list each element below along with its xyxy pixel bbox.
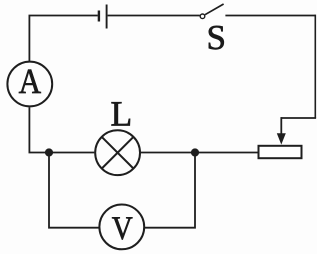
wire bbox=[281, 117, 316, 119]
ammeter A circle bbox=[7, 62, 52, 107]
svg-text:S: S bbox=[206, 18, 225, 57]
svg-text:L: L bbox=[111, 94, 133, 134]
rheostat R wiper arrowhead bbox=[277, 133, 286, 144]
wire bbox=[29, 16, 97, 62]
wire bbox=[108, 15, 200, 17]
switch S contact circle bbox=[200, 14, 205, 19]
lamp L circle bbox=[95, 130, 140, 175]
wire bbox=[314, 15, 316, 118]
wire bbox=[29, 107, 94, 152]
lamp L cross bbox=[102, 137, 134, 169]
wire bbox=[225, 15, 315, 17]
node junction dot right bbox=[191, 148, 199, 156]
svg-text:V: V bbox=[112, 211, 133, 247]
svg-text:A: A bbox=[19, 61, 42, 101]
wire rheostat wiper stem bbox=[280, 117, 282, 134]
battery negative plate bbox=[98, 11, 100, 22]
wire voltmeter branch left bbox=[49, 153, 99, 228]
voltmeter V circle bbox=[99, 205, 144, 250]
switch S lever bbox=[205, 4, 224, 15]
rheostat R body bbox=[259, 146, 302, 158]
battery positive plate bbox=[106, 5, 108, 29]
node junction dot left bbox=[45, 148, 53, 156]
wire voltmeter branch right bbox=[145, 153, 195, 228]
wire bbox=[141, 152, 258, 154]
